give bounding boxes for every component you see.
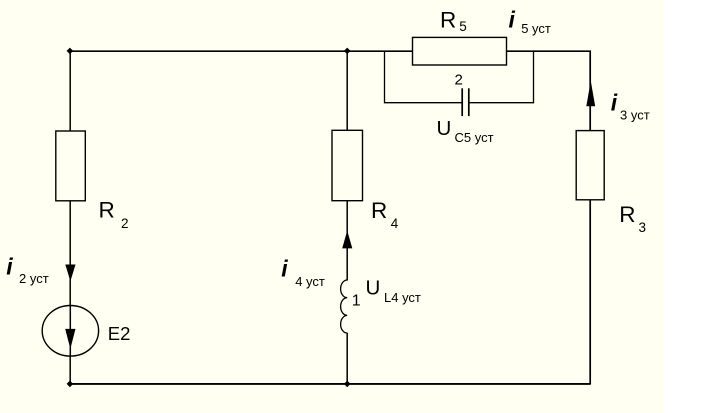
svg-text:5: 5 [459, 19, 467, 34]
wire capacitor loop [385, 51, 534, 102]
svg-text:R: R [99, 198, 115, 223]
current label i2 уст [6, 254, 48, 286]
svg-text:E2: E2 [108, 323, 131, 344]
svg-text:4: 4 [391, 216, 399, 231]
svg-text:L4 уст: L4 уст [384, 290, 421, 305]
junction node B [344, 48, 351, 55]
svg-text:i: i [611, 89, 618, 115]
svg-text:C5 уст: C5 уст [455, 130, 494, 145]
wire middle branch lower (inductor down to node E) [346, 333, 348, 384]
label R3 [619, 202, 646, 235]
current label i5 уст [509, 7, 551, 36]
wire bottom (node D to node E to bottom-right corner) [70, 383, 591, 385]
current arrow i4 [342, 231, 352, 249]
resistor R5 [413, 37, 507, 65]
svg-text:i: i [281, 255, 288, 281]
svg-text:R: R [371, 198, 387, 223]
resistor R2 [56, 131, 86, 201]
svg-text:i: i [6, 254, 13, 280]
junction node A [67, 48, 74, 55]
svg-text:U: U [437, 117, 452, 140]
wire left branch (node A down to node D) [69, 51, 71, 384]
svg-text:1: 1 [352, 293, 361, 310]
svg-text:2 уст: 2 уст [19, 271, 49, 286]
svg-text:2: 2 [455, 72, 463, 89]
inductor L4 [341, 280, 348, 333]
svg-text:5 уст: 5 уст [521, 21, 551, 36]
junction node E [344, 381, 351, 388]
svg-text:R: R [440, 7, 456, 32]
wire middle branch upper (node B down to inductor) [346, 51, 348, 280]
voltage label U C5 уст [437, 117, 494, 145]
current label i4 уст [281, 255, 325, 289]
svg-text:R: R [619, 202, 635, 227]
current arrow i2 [65, 265, 75, 282]
junction node D [67, 381, 74, 388]
svg-text:3 уст: 3 уст [620, 108, 650, 123]
svg-text:i: i [509, 7, 516, 33]
capacitor C5 plates [462, 88, 469, 116]
label R5 [440, 7, 467, 33]
resistor R4 [332, 130, 363, 200]
svg-text:U: U [366, 277, 381, 300]
current arrow i3 [586, 81, 595, 106]
resistor R3 [576, 131, 604, 200]
voltage label U L4 уст [366, 277, 421, 305]
source E2 [42, 306, 98, 357]
wire top (node A to node B to top-right corner) [70, 50, 590, 384]
svg-text:4 уст: 4 уст [295, 274, 325, 289]
svg-text:3: 3 [639, 220, 647, 235]
svg-text:2: 2 [121, 216, 129, 231]
label R4 [371, 198, 399, 231]
current label i3 уст [611, 89, 650, 122]
label R2 [99, 198, 129, 231]
